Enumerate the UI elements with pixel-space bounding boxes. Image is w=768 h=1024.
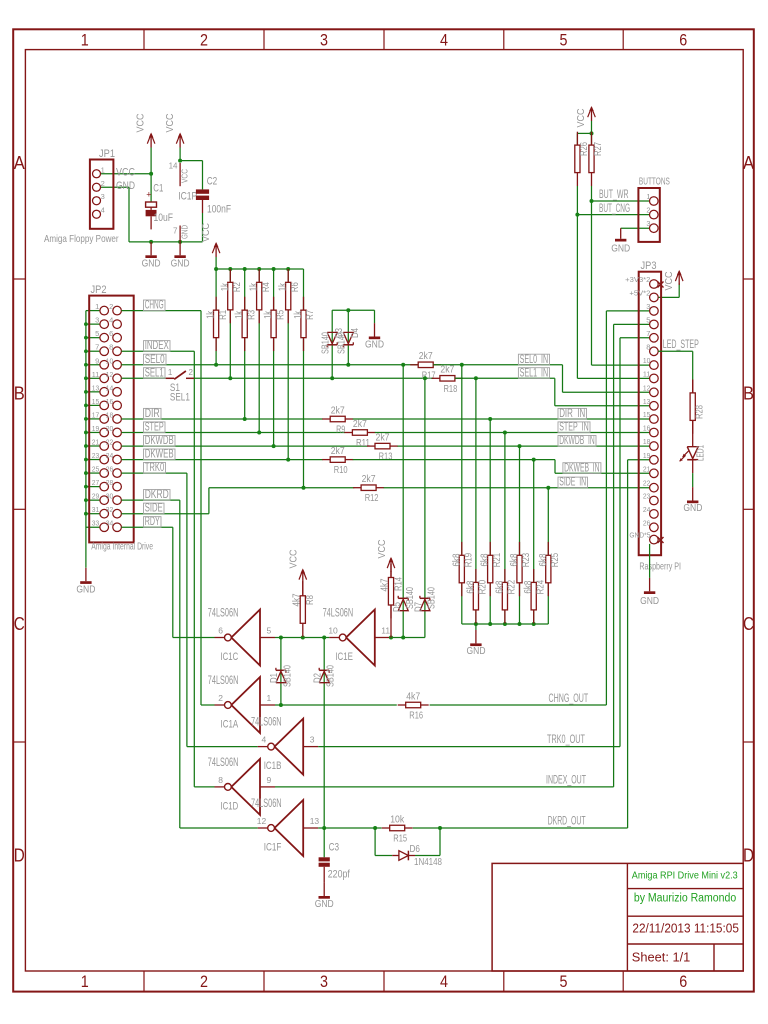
svg-text:DKRD: DKRD	[145, 487, 169, 501]
svg-text:23: 23	[92, 451, 100, 460]
svg-text:6k8: 6k8	[538, 553, 549, 566]
svg-text:D: D	[14, 846, 25, 866]
svg-text:2: 2	[200, 972, 208, 991]
svg-text:2k7: 2k7	[440, 364, 454, 376]
svg-text:GND: GND	[76, 583, 95, 595]
diode D2 SB140	[323, 638, 325, 829]
node IC1P-GND junction	[178, 240, 182, 244]
svg-text:R2: R2	[232, 282, 243, 292]
svg-text:3: 3	[646, 302, 650, 311]
wire D6 bypass loop	[374, 828, 376, 856]
svg-text:STEP: STEP	[145, 420, 164, 434]
label SIDE_IN	[558, 477, 588, 488]
svg-text:13: 13	[643, 397, 651, 406]
resistor R17 2k7	[410, 364, 418, 366]
resistor R5 1k	[273, 297, 275, 310]
svg-text:B: B	[14, 384, 25, 404]
wire VCC to bus	[215, 257, 217, 269]
svg-text:R25: R25	[550, 552, 561, 567]
label DIR_IN	[558, 408, 587, 419]
wire R23 column	[519, 446, 521, 624]
resistor R21 6k8	[489, 542, 491, 555]
svg-text:JP1: JP1	[99, 148, 115, 160]
svg-text:4: 4	[440, 30, 448, 49]
svg-text:C1: C1	[153, 183, 163, 195]
svg-text:SEL0_IN: SEL0_IN	[520, 352, 549, 366]
node C1-GND junction	[149, 240, 153, 244]
svg-text:INDEX_OUT: INDEX_OUT	[546, 773, 586, 787]
wire SIDE_IN	[384, 487, 650, 489]
title block divider	[626, 863, 628, 971]
svg-text:VCC: VCC	[180, 169, 190, 183]
svg-text:GND: GND	[640, 595, 659, 607]
svg-text:2: 2	[109, 302, 113, 311]
svg-text:2: 2	[218, 693, 223, 703]
resistor R16 4k7	[398, 704, 406, 706]
svg-text:SB140: SB140	[321, 332, 332, 354]
svg-text:6: 6	[679, 30, 687, 49]
wire JP2 bus stub	[86, 418, 100, 420]
wire RDY to IC1C output	[173, 637, 215, 639]
svg-text:2k7: 2k7	[353, 418, 367, 430]
resistor R27	[591, 132, 593, 145]
svg-text:19: 19	[643, 451, 651, 460]
resistor R20 6k8	[475, 569, 477, 582]
svg-text:21: 21	[643, 464, 651, 473]
svg-text:A: A	[743, 153, 754, 173]
wire JP3 ground	[649, 544, 651, 578]
title block row lines	[627, 888, 743, 890]
svg-text:6k8: 6k8	[509, 553, 520, 566]
svg-text:24: 24	[643, 505, 651, 514]
svg-text:IC1E: IC1E	[335, 651, 353, 663]
ground symbol below JP3	[649, 578, 651, 591]
svg-text:SB140: SB140	[326, 665, 337, 687]
label SEL0_IN	[518, 354, 549, 365]
svg-text:CHNG: CHNG	[145, 298, 164, 312]
svg-text:C: C	[743, 614, 754, 634]
svg-text:3: 3	[320, 972, 328, 991]
wire JP2 bus stub	[86, 310, 100, 312]
svg-text:2k7: 2k7	[331, 445, 345, 457]
resistor R14 4k7	[390, 571, 392, 578]
resistor R11 2k7	[344, 432, 352, 434]
wire TRK0_OUT	[318, 746, 620, 748]
svg-text:7: 7	[646, 329, 650, 338]
node VCC-C1 junction	[149, 172, 153, 176]
wire BUT_CNG to JP3 pin11	[577, 377, 649, 379]
wire VCC bus	[216, 268, 303, 270]
svg-text:12: 12	[106, 370, 114, 379]
svg-text:6k8: 6k8	[480, 553, 491, 566]
svg-text:SB140: SB140	[427, 587, 438, 609]
svg-text:4k7: 4k7	[292, 593, 303, 606]
resistor R22 6k8	[504, 569, 506, 582]
svg-text:INDEX: INDEX	[145, 338, 169, 352]
svg-text:30: 30	[106, 492, 114, 501]
svg-text:STEP_IN: STEP_IN	[559, 420, 589, 434]
svg-text:1N4148: 1N4148	[414, 856, 442, 868]
wire LED_STEP	[658, 350, 693, 352]
svg-text:CHNG_OUT: CHNG_OUT	[549, 691, 589, 705]
label INDEX	[144, 341, 171, 352]
svg-text:4k7: 4k7	[380, 578, 391, 591]
op-amp IC1E inverter	[329, 610, 390, 666]
svg-text:R3: R3	[246, 310, 257, 320]
svg-text:11: 11	[643, 369, 651, 378]
wire DKWEB_IN	[353, 459, 555, 461]
ground symbol below C1	[150, 242, 152, 255]
svg-text:74LS06N: 74LS06N	[251, 715, 282, 729]
svg-text:C: C	[14, 614, 25, 634]
svg-text:74LS06N: 74LS06N	[323, 606, 354, 620]
svg-text:B: B	[743, 384, 754, 404]
wire R6 column	[287, 269, 289, 460]
label TRK0	[144, 462, 166, 473]
svg-text:3: 3	[310, 735, 315, 745]
svg-text:74LS06N: 74LS06N	[208, 673, 239, 687]
svg-text:1: 1	[646, 192, 650, 201]
svg-text:D: D	[743, 846, 754, 866]
wire JP2 bus stub	[86, 404, 100, 406]
label SEL0	[144, 354, 167, 365]
svg-text:R24: R24	[535, 580, 546, 595]
svg-text:VCC: VCC	[376, 539, 388, 558]
svg-text:VCC: VCC	[288, 549, 300, 568]
svg-text:LED_STEP: LED_STEP	[663, 337, 699, 351]
svg-text:1: 1	[267, 693, 272, 703]
wire JP2 bus stub	[86, 486, 100, 488]
svg-text:8: 8	[109, 343, 113, 352]
svg-text:20: 20	[106, 424, 114, 433]
svg-text:26: 26	[106, 465, 114, 474]
svg-text:BUT_CNG: BUT_CNG	[599, 201, 630, 215]
svg-text:2: 2	[646, 206, 650, 215]
svg-text:12: 12	[643, 383, 651, 392]
power VCC symbol at R network	[215, 244, 217, 257]
svg-text:5: 5	[646, 315, 650, 324]
wire D7 column	[424, 378, 426, 637]
svg-text:DIR: DIR	[145, 406, 160, 420]
label CHNG	[144, 300, 166, 311]
ground symbol below C3	[323, 883, 325, 896]
resistor R26	[576, 132, 578, 145]
svg-text:IC1D: IC1D	[221, 800, 239, 812]
svg-text:GND: GND	[142, 257, 161, 269]
power VCC symbol at C1	[150, 135, 152, 148]
svg-text:IC1F: IC1F	[264, 842, 282, 854]
svg-text:3: 3	[101, 192, 105, 201]
svg-text:IC1C: IC1C	[221, 651, 239, 663]
svg-text:1: 1	[101, 165, 105, 174]
wire JP2 bus stub	[86, 472, 100, 474]
svg-text:R7: R7	[305, 310, 316, 320]
svg-text:D6: D6	[410, 843, 421, 855]
svg-text:10: 10	[328, 626, 338, 636]
svg-text:6k8: 6k8	[494, 580, 505, 593]
wire R25 column	[547, 488, 549, 624]
diode D7 SB140	[420, 599, 430, 610]
connector JP1	[90, 160, 114, 229]
ground symbol below pulldown bus	[475, 624, 477, 630]
svg-text:9: 9	[267, 775, 272, 785]
wire BUT_CNG	[576, 186, 578, 378]
wire DIR	[121, 418, 322, 420]
wire DKWEB	[121, 459, 322, 461]
svg-text:by Maurizio Ramondo: by Maurizio Ramondo	[634, 893, 736, 905]
frame row dividers	[13, 278, 25, 280]
svg-text:14: 14	[169, 162, 178, 171]
wire DKWDB	[121, 445, 367, 447]
wire JP2 bus stub	[86, 337, 100, 339]
svg-text:1: 1	[95, 302, 99, 311]
ground symbol below JP2	[85, 568, 87, 581]
svg-text:23: 23	[643, 492, 651, 501]
svg-text:11: 11	[381, 626, 390, 636]
wire CHNG_OUT	[430, 704, 607, 706]
op-amp IC1F inverter	[258, 800, 319, 856]
label DKWEB_IN	[563, 463, 601, 474]
svg-text:JP2: JP2	[91, 284, 107, 296]
wire R3 column	[244, 269, 246, 419]
svg-text:R22: R22	[507, 580, 518, 595]
svg-text:4: 4	[101, 206, 105, 215]
wire VCC2 down	[179, 148, 181, 161]
svg-text:28: 28	[106, 478, 114, 487]
svg-text:14: 14	[106, 383, 114, 392]
svg-text:RDY: RDY	[145, 514, 160, 528]
ground symbol below IC1P	[179, 242, 181, 255]
diode D6 1N4148	[392, 855, 399, 857]
wire JP3 pin2 to VCC	[658, 296, 679, 298]
wire BUT_WR to JP3 pin10	[592, 364, 650, 366]
wire SIDE upper row	[209, 487, 355, 489]
svg-text:25: 25	[92, 465, 100, 474]
svg-text:R18: R18	[444, 383, 458, 395]
svg-text:R12: R12	[365, 492, 379, 504]
wire JP2 bus stub	[86, 323, 100, 325]
svg-text:26: 26	[643, 518, 651, 527]
svg-text:R15: R15	[393, 833, 407, 845]
svg-text:R8: R8	[305, 595, 316, 605]
svg-text:VCC: VCC	[663, 271, 675, 290]
svg-text:1k: 1k	[206, 310, 217, 319]
svg-text:6k8: 6k8	[465, 580, 476, 593]
svg-text:R23: R23	[521, 552, 532, 567]
wire IC1E input node	[390, 637, 425, 639]
op-amp IC1B inverter	[258, 719, 319, 775]
resistor R1 1k	[215, 297, 217, 310]
power VCC symbol at R8	[302, 570, 304, 583]
diode D4 SB140	[343, 332, 353, 343]
svg-text:+3V3*2: +3V3*2	[625, 275, 650, 284]
resistor R19 6k8	[461, 542, 463, 555]
connector JP2	[89, 296, 134, 543]
power VCC symbol at R26 R27	[591, 108, 593, 121]
svg-text:GND: GND	[116, 180, 135, 192]
svg-text:DKWEB: DKWEB	[145, 447, 174, 461]
svg-text:SIDE: SIDE	[145, 501, 163, 515]
wire CHNG	[121, 310, 201, 312]
svg-text:SEL1: SEL1	[145, 365, 164, 379]
svg-text:R16: R16	[409, 710, 423, 722]
resistor R23 6k8	[519, 542, 521, 555]
wire SEL0_IN	[433, 364, 562, 366]
wire INDEX	[121, 350, 194, 352]
wire VCC to R26 R27	[591, 121, 593, 133]
svg-text:10uF: 10uF	[154, 212, 174, 224]
svg-text:SEL1_IN: SEL1_IN	[520, 365, 549, 379]
resistor R24 6k8	[533, 569, 535, 582]
svg-text:SB140: SB140	[337, 332, 348, 354]
svg-text:DKWDB: DKWDB	[145, 433, 174, 447]
label STEP	[144, 422, 166, 433]
wire R22 column	[504, 433, 506, 625]
wire JP2 ground bus	[85, 311, 87, 568]
svg-text:220pf: 220pf	[328, 868, 351, 880]
svg-text:VCC: VCC	[164, 113, 176, 132]
svg-text:GND: GND	[180, 225, 190, 239]
resistor R6 1k	[287, 269, 289, 282]
label SEL1	[144, 368, 166, 379]
svg-text:17: 17	[92, 410, 100, 419]
node junctions on signal rows	[214, 363, 218, 367]
svg-text:R5: R5	[275, 310, 286, 320]
wire JP2 bus stub	[86, 513, 100, 515]
svg-text:GND: GND	[315, 898, 334, 910]
svg-text:3: 3	[95, 316, 99, 325]
svg-text:R6: R6	[290, 282, 301, 292]
svg-text:33: 33	[92, 519, 100, 528]
wire IC1C input node	[275, 637, 329, 639]
svg-text:7: 7	[95, 343, 99, 352]
wire DIR_IN	[353, 418, 650, 420]
svg-text:16: 16	[643, 424, 651, 433]
svg-text:R9: R9	[336, 424, 345, 436]
diode D3 SB140	[327, 332, 337, 343]
svg-text:DKRD_OUT: DKRD_OUT	[548, 814, 586, 828]
svg-text:Amiga RPI Drive Mini v2.3: Amiga RPI Drive Mini v2.3	[632, 870, 738, 881]
svg-text:2: 2	[189, 368, 194, 377]
svg-text:18: 18	[643, 437, 651, 446]
svg-text:74LS06N: 74LS06N	[208, 755, 239, 769]
svg-text:74LS06N: 74LS06N	[251, 796, 282, 810]
resistor R13 2k7	[367, 445, 375, 447]
wire JP2 bus stub	[86, 431, 100, 433]
svg-text:6k8: 6k8	[523, 580, 534, 593]
svg-text:1k: 1k	[220, 282, 231, 291]
wire TRK0 to IC1B output	[187, 746, 258, 748]
resistor R3 1k	[244, 297, 246, 310]
wire JP2 bus stub	[86, 364, 100, 366]
wire JP1.2 to GND rail	[101, 186, 129, 188]
wire R1 column	[215, 269, 217, 365]
svg-text:1: 1	[81, 972, 89, 991]
ground symbol below BUTTONS	[620, 228, 622, 239]
diode D1 SB140	[280, 638, 282, 706]
power VCC symbol at IC1P	[179, 135, 181, 148]
svg-text:IC1A: IC1A	[221, 719, 239, 731]
svg-text:22: 22	[106, 438, 114, 447]
power VCC symbol at R14	[390, 559, 392, 572]
svg-text:31: 31	[92, 505, 100, 514]
resistor R25 6k8	[547, 542, 549, 555]
wire TRK0	[121, 472, 186, 474]
svg-text:5: 5	[95, 329, 99, 338]
svg-text:3: 3	[646, 219, 650, 228]
wire R4 column	[258, 269, 260, 433]
title block box	[492, 863, 743, 971]
svg-text:JP3: JP3	[641, 260, 657, 272]
svg-text:BUT_WR: BUT_WR	[599, 187, 629, 201]
svg-text:100nF: 100nF	[207, 203, 231, 215]
svg-text:TRK0_OUT: TRK0_OUT	[547, 732, 585, 746]
svg-text:4: 4	[109, 316, 113, 325]
wire JP2 bus stub	[86, 445, 100, 447]
svg-text:R28: R28	[695, 405, 706, 419]
svg-text:1: 1	[81, 30, 89, 49]
op-amp IC1C inverter	[215, 610, 276, 666]
wire BUTTONS pin3 to ground	[621, 227, 650, 229]
svg-text:12: 12	[257, 816, 267, 826]
svg-text:2k7: 2k7	[419, 350, 433, 362]
wire R21 column	[489, 419, 491, 624]
svg-text:TRK0: TRK0	[145, 460, 165, 474]
svg-text:LED1: LED1	[696, 445, 707, 461]
svg-text:R1: R1	[218, 310, 229, 320]
resistor R28	[692, 380, 694, 393]
wire D3 D4 ground link	[331, 310, 333, 378]
resistor R4 1k	[258, 269, 260, 282]
svg-text:SEL1: SEL1	[170, 391, 190, 403]
label DKRD	[144, 490, 171, 501]
svg-text:SB140: SB140	[282, 665, 293, 687]
svg-text:1: 1	[168, 368, 173, 377]
svg-text:10k: 10k	[390, 813, 405, 825]
svg-text:2k7: 2k7	[362, 473, 376, 485]
svg-text:R13: R13	[379, 451, 393, 463]
svg-text:2k7: 2k7	[376, 431, 390, 443]
svg-text:D4: D4	[350, 328, 361, 338]
wire R7 column	[303, 269, 305, 488]
op-amp IC1D inverter	[215, 759, 276, 815]
wire R20 column	[475, 378, 477, 624]
svg-text:21: 21	[92, 438, 100, 447]
ground symbol below LED1	[692, 487, 694, 500]
resistor R10 2k7	[322, 459, 330, 461]
svg-text:10: 10	[643, 356, 651, 365]
svg-text:3: 3	[320, 30, 328, 49]
wire IC1P top tee	[180, 160, 202, 162]
resistor R15 10k	[382, 827, 390, 829]
svg-text:Amiga Internal Drive: Amiga Internal Drive	[91, 541, 153, 553]
svg-text:6: 6	[679, 972, 687, 991]
svg-text:5: 5	[267, 626, 272, 636]
wire R19 column	[461, 365, 463, 624]
svg-text:9: 9	[95, 356, 99, 365]
capacitor C2	[196, 189, 209, 193]
svg-text:1k: 1k	[278, 282, 289, 291]
svg-text:34: 34	[106, 519, 114, 528]
svg-text:6: 6	[109, 329, 113, 338]
svg-text:4: 4	[261, 735, 266, 745]
resistor R9 2k7	[322, 418, 330, 420]
svg-text:2k7: 2k7	[331, 404, 345, 416]
svg-text:1k: 1k	[234, 310, 245, 319]
svg-text:32: 32	[106, 505, 114, 514]
svg-text:R27: R27	[593, 142, 604, 156]
wire IC1A input to R16	[275, 704, 397, 706]
